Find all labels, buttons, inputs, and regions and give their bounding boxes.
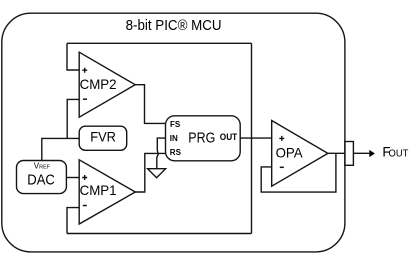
- wire: bottom rail: [67, 233, 252, 235]
- comparator CMP1: [79, 160, 135, 224]
- label: OPA - input: [280, 166, 284, 168]
- wire: right rail: [251, 43, 253, 233]
- svg-text:OPA: OPA: [276, 144, 304, 160]
- wire: bottom rail up to CMP1 - input: [67, 208, 79, 234]
- wire: FVR output rail to DAC input: [42, 138, 79, 160]
- svg-text:FVR: FVR: [90, 129, 116, 145]
- svg-text:CMP2: CMP2: [80, 76, 117, 92]
- label: OPA + input: [279, 136, 284, 141]
- label: CMP2 + input: [82, 68, 87, 73]
- wire: PRG IN to ground: [157, 138, 166, 169]
- wire: CMP1 output to PRG RS: [135, 153, 165, 192]
- comparator CMP2: [79, 52, 135, 117]
- svg-text:RS: RS: [170, 148, 182, 157]
- MCU boundary: [2, 13, 345, 252]
- wire: CMP2 output to PRG FS: [135, 85, 165, 124]
- voltage reference FVR: [79, 126, 127, 150]
- svg-text:FS: FS: [170, 120, 181, 129]
- svg-text:DAC: DAC: [27, 172, 55, 188]
- label: CMP2 - input: [83, 98, 87, 100]
- pin FOUT pad: [345, 142, 354, 166]
- svg-text:CMP1: CMP1: [80, 182, 117, 198]
- wire: FVR rail branch to CMP2 - input: [67, 99, 79, 138]
- op-amp OPA: [272, 121, 328, 187]
- wire: PRG OUT to OPA + input: [240, 137, 272, 139]
- ramp generator PRG: [166, 116, 241, 161]
- arrowhead: [369, 150, 375, 157]
- wire: OPA feedback output to - input: [261, 153, 336, 192]
- wire: top rail: [67, 42, 252, 44]
- label: CMP1 + input: [82, 175, 87, 180]
- svg-text:8-bit PIC® MCU: 8-bit PIC® MCU: [126, 18, 222, 34]
- wire: pin to arrow: [353, 152, 369, 154]
- label: CMP1 - input: [83, 205, 87, 207]
- ground: [148, 169, 166, 178]
- DAC: [17, 161, 67, 194]
- wire: DAC output to CMP1 + input: [66, 177, 79, 179]
- svg-text:PRG: PRG: [188, 130, 215, 146]
- svg-text:OUT: OUT: [389, 148, 409, 160]
- wire: CMP2 + input from top rail: [67, 43, 79, 70]
- wire: OPA output to pin: [328, 152, 345, 154]
- svg-text:IN: IN: [170, 134, 178, 143]
- svg-text:OUT: OUT: [220, 132, 238, 142]
